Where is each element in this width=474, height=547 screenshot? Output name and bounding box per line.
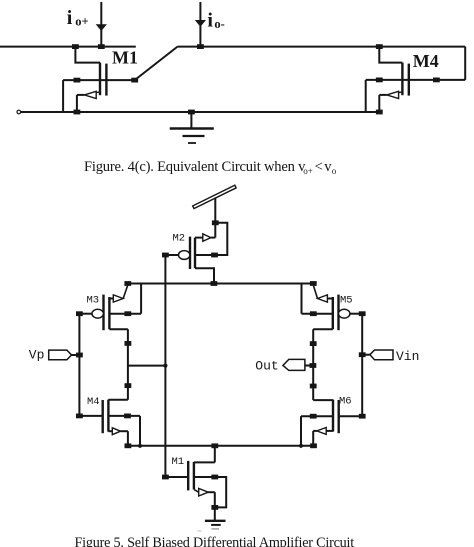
wire M6 gate <box>339 415 363 417</box>
wire <box>365 80 367 112</box>
transistor M3 <box>79 284 141 331</box>
junction <box>124 311 131 316</box>
svg-text:o+: o+ <box>75 15 88 29</box>
transistor M1 <box>75 47 106 112</box>
transistor M2 <box>165 234 215 284</box>
wire <box>62 80 64 112</box>
wire <box>214 198 216 238</box>
junction <box>162 253 169 258</box>
svg-text:M1: M1 <box>172 456 185 468</box>
wire left gate vertical <box>78 314 80 416</box>
transistor M5 <box>302 284 363 331</box>
junction <box>211 505 218 510</box>
svg-text:Vp: Vp <box>29 347 45 362</box>
transistor M6 <box>301 400 339 446</box>
junction <box>124 281 131 286</box>
junction <box>376 44 383 49</box>
svg-text:i: i <box>207 9 213 31</box>
current arrow i_o+ <box>100 2 102 47</box>
svg-text:M3: M3 <box>87 295 100 307</box>
junction <box>310 363 317 368</box>
wire left branch vertical <box>127 329 129 400</box>
port Vp <box>49 350 72 360</box>
junction <box>211 475 218 480</box>
svg-text:M4: M4 <box>413 51 439 71</box>
junction <box>211 281 218 286</box>
svg-text:Figure 5. Self Biased Differen: Figure 5. Self Biased Differential Ampli… <box>75 535 355 547</box>
junction <box>125 383 132 388</box>
wire top-right rail <box>178 46 466 48</box>
junction <box>310 311 317 316</box>
junction <box>310 281 317 286</box>
svg-text:o-: o- <box>214 17 224 31</box>
junction <box>359 414 366 419</box>
transistor M4 <box>103 400 140 446</box>
transistor M4 <box>379 47 409 112</box>
svg-text:o+: o+ <box>303 166 313 176</box>
junction <box>212 220 219 225</box>
current arrow i_o- <box>199 2 201 47</box>
junction <box>98 44 105 49</box>
junction <box>310 384 317 389</box>
ground bottom <box>214 507 216 520</box>
junction <box>138 444 142 448</box>
junction <box>72 44 79 49</box>
junction <box>163 364 167 368</box>
junction <box>359 311 366 316</box>
svg-text:M5: M5 <box>340 295 353 307</box>
svg-text:M4: M4 <box>87 396 100 408</box>
junction <box>188 110 195 115</box>
transistor M1 bottom <box>165 446 214 508</box>
wire diagonal <box>135 47 178 81</box>
junction <box>376 110 383 115</box>
wire M1 body loop <box>215 477 226 507</box>
svg-text:M1: M1 <box>112 48 138 68</box>
wire center vertical <box>164 255 166 477</box>
junction <box>74 78 81 83</box>
port Vin <box>362 354 370 356</box>
wire M2 body loop <box>215 223 227 255</box>
wire bottom rail <box>21 111 380 113</box>
svg-text:Vin: Vin <box>396 349 419 364</box>
wire right branch vertical <box>312 329 314 400</box>
junction <box>125 341 132 346</box>
svg-text:Out: Out <box>255 359 278 374</box>
junction <box>76 311 83 316</box>
wire M4 row <box>366 79 466 81</box>
junction <box>162 475 169 480</box>
junction <box>76 414 83 419</box>
svg-text:M6: M6 <box>339 396 352 408</box>
svg-text:M2: M2 <box>173 233 186 245</box>
junction <box>125 443 132 448</box>
junction <box>211 253 218 258</box>
port Out <box>283 359 305 370</box>
wire bottom rail <box>128 445 314 447</box>
svg-text:<: < <box>315 159 323 175</box>
junction <box>74 110 81 115</box>
junction <box>124 414 131 419</box>
svg-text:i: i <box>67 7 73 29</box>
supply bar <box>193 185 236 208</box>
wire M1 row <box>63 79 135 81</box>
ground <box>190 112 192 129</box>
wire M4 gate <box>79 415 102 417</box>
svg-text:o: o <box>332 166 337 176</box>
terminal <box>17 110 21 114</box>
junction <box>211 443 218 448</box>
junction <box>310 414 317 419</box>
wire branch link <box>128 365 165 367</box>
junction <box>310 341 317 346</box>
wire upper rail <box>128 283 314 285</box>
wire top-left rail <box>0 46 136 48</box>
svg-text:Figure. 4(c). Equivalent Circu: Figure. 4(c). Equivalent Circuit when v <box>84 159 306 175</box>
junction <box>76 353 83 358</box>
wire right gate vertical <box>361 314 363 417</box>
wire right corner <box>464 47 466 80</box>
junction <box>310 443 317 448</box>
junction <box>376 78 383 83</box>
junction <box>197 44 204 49</box>
junction <box>299 444 303 448</box>
junction <box>433 78 440 83</box>
junction <box>359 352 366 357</box>
junction <box>131 78 138 83</box>
